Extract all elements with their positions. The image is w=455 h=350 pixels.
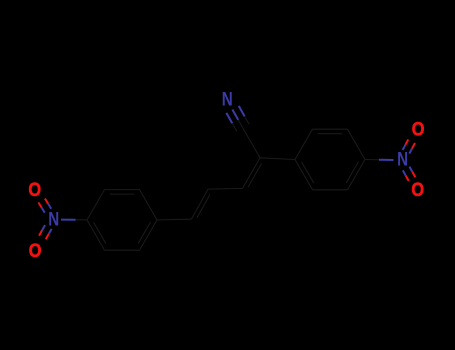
- wire: single bond C2 - nitrile carbon: [243, 128, 260, 158]
- svg-text:N: N: [397, 148, 408, 170]
- benzene ring B (right, 4-nitrophenyl): [295, 129, 365, 190]
- svg-text:O: O: [412, 118, 425, 140]
- nitro group right: N-C(aryl) bond: [379, 159, 394, 161]
- wire: single bond C2 - ring B ipso: [260, 158, 295, 160]
- nitrile C#N triple bond: [226, 106, 249, 131]
- svg-text:O: O: [28, 179, 41, 201]
- double bond N=O (right bottom): [403, 167, 415, 181]
- wire: single bond ring A C4 - C5 chain: [157, 218, 191, 221]
- double bond N=O (left bottom): [39, 225, 52, 239]
- double bond N=O (left top): [38, 199, 51, 213]
- double bond C3=C2 of chain: [243, 158, 262, 189]
- svg-text:N: N: [48, 208, 59, 230]
- double bond N=O (right top): [403, 139, 415, 153]
- double bond C5=C4 of dienenitrile chain: [191, 189, 209, 219]
- svg-text:O: O: [29, 239, 42, 261]
- svg-text:N: N: [222, 88, 233, 110]
- svg-text:O: O: [411, 179, 424, 201]
- benzene ring A (left, 4-nitrophenyl): [87, 190, 157, 251]
- nitro group left: N-C(aryl) bond: [61, 219, 76, 221]
- wire: single bond C4 - C3 chain: [208, 187, 242, 190]
